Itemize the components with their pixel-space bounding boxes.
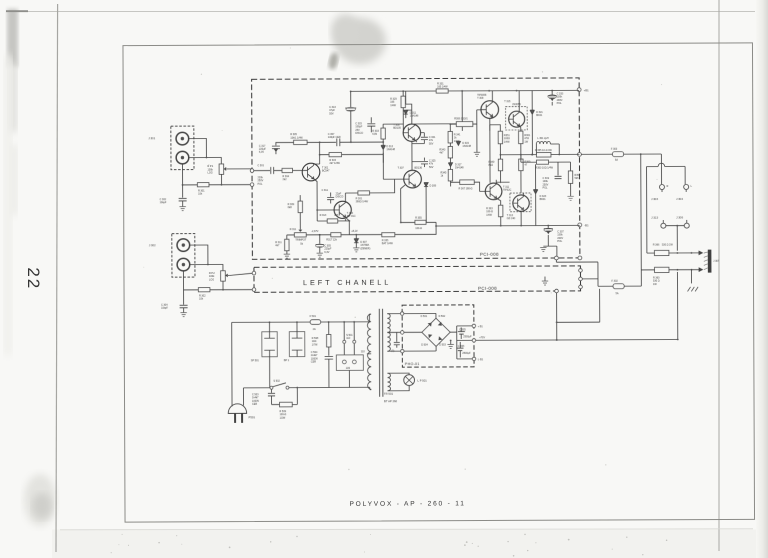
svg-text:530 Ω 1W: 530 Ω 1W (662, 244, 674, 247)
resistor R363 (486, 205, 503, 217)
transistor T313 output bottom (507, 193, 532, 220)
inductor L301 (532, 137, 559, 155)
resistor R349 (488, 159, 502, 171)
svg-text:F 303: F 303 (611, 148, 618, 151)
output terminal node (578, 152, 582, 156)
input terminal node (250, 169, 254, 173)
resistor R343 (439, 146, 452, 158)
transformer TR501 primary (361, 314, 372, 389)
wire 0V rail long (474, 272, 678, 340)
svg-text:TR 501: TR 501 (384, 392, 394, 396)
input jack J301 (148, 126, 194, 170)
svg-text:10k/1 1/4W: 10k/1 1/4W (290, 136, 303, 139)
svg-text:POL: POL (557, 102, 563, 105)
resistor R360 (653, 267, 669, 286)
svg-text:LOG: LOG (209, 278, 214, 281)
resistor R361 (519, 131, 531, 144)
svg-text:TIP3055: TIP3055 (477, 94, 487, 97)
rectifier output terminals (472, 324, 475, 327)
ground input1 (179, 207, 185, 211)
svg-text:6k8: 6k8 (288, 206, 293, 209)
svg-text:6,3V: 6,3V (259, 151, 264, 154)
rectifier input terminals (400, 312, 403, 315)
wire R309 (299, 195, 301, 228)
svg-text:5A: 5A (616, 292, 619, 295)
capacitor C315 (355, 117, 375, 135)
resistor R509 (279, 388, 297, 420)
rectifier PHO-01 dashed box (402, 305, 474, 367)
svg-text:1N4148: 1N4148 (386, 148, 395, 151)
wire R360 row (641, 268, 702, 272)
svg-text:390Ω 1/4W: 390Ω 1/4W (356, 201, 369, 204)
switch S502 (243, 379, 371, 390)
svg-text:R317 12k: R317 12k (326, 238, 337, 241)
wire jack1 to pot (189, 138, 222, 164)
capacitor C307 (307, 133, 351, 146)
left paper fold line (56, 4, 58, 552)
resistor R305 (290, 133, 307, 144)
svg-text:2N3055: 2N3055 (512, 103, 521, 106)
fuse F302 (582, 279, 641, 296)
potentiometer P301 (207, 164, 228, 175)
capacitor C504 (311, 322, 333, 388)
wire bridge connections (404, 313, 472, 359)
svg-text:165 1/4W: 165 1/4W (437, 86, 448, 89)
svg-text:10kpF: 10kpF (160, 201, 167, 204)
svg-text:DISCO: DISCO (355, 132, 363, 135)
transistor T311 (485, 182, 511, 200)
trimpot TP (290, 228, 307, 246)
svg-text:1N4148: 1N4148 (462, 145, 471, 148)
wire T315 emitter to resistors (500, 122, 532, 155)
svg-text:F 501: F 501 (310, 315, 317, 318)
wire x463 vertical (461, 91, 463, 131)
svg-text:D 504: D 504 (421, 344, 428, 347)
svg-text:1k5: 1k5 (334, 214, 339, 217)
transformer TR501 secondary (387, 314, 402, 352)
return terminal node (250, 183, 254, 187)
svg-text:2500μF: 2500μF (462, 352, 471, 355)
svg-text:1N4148: 1N4148 (410, 115, 419, 118)
svg-text:S 502: S 502 (273, 380, 280, 383)
svg-text:R 365 10-Ω 1W: R 365 10-Ω 1W (535, 149, 553, 152)
wire C313 junction to R303 (351, 141, 383, 143)
svg-text:-2,67V: -2,67V (311, 230, 319, 233)
resistor R301 input (197, 183, 209, 196)
svg-text:R 367 180-Ω: R 367 180-Ω (459, 187, 473, 190)
resistor R331 (436, 82, 448, 93)
svg-text:PHO-01: PHO-01 (405, 362, 420, 366)
resistor R311 (275, 239, 289, 251)
svg-text:POL: POL (258, 183, 264, 186)
wire R355 to mid column (401, 190, 436, 234)
svg-text:(- B1: (- B1 (478, 358, 484, 361)
svg-text:110: 110 (361, 350, 366, 353)
svg-text:LEFT CHANELL: LEFT CHANELL (303, 278, 391, 287)
capacitor C301 input coupling (254, 164, 282, 186)
wire T301 collector / R315 feedback row (320, 142, 384, 164)
svg-text:T 309: T 309 (477, 97, 484, 100)
diode D309 (424, 183, 437, 191)
svg-text:BT AP 260: BT AP 260 (384, 399, 398, 403)
bridge rectifier diamond (421, 315, 451, 347)
svg-text:BK01: BK01 (536, 114, 543, 117)
diode D307 zener (354, 235, 370, 251)
capacitor C337 (543, 225, 564, 256)
ground left board (544, 277, 546, 281)
svg-text:CER: CER (311, 361, 316, 364)
svg-text:2k2: 2k2 (283, 178, 288, 181)
resistor R366 (653, 244, 674, 256)
wire pot2 wiper to left-chanell board (223, 273, 254, 290)
svg-text:SP 501: SP 501 (251, 359, 260, 362)
wire T307 emitter to R355 row (383, 153, 405, 223)
plug P501 (228, 388, 255, 423)
capacitor C313 (329, 91, 356, 142)
LEFT CHANELL dashed box (254, 266, 581, 292)
diode D321 (530, 91, 543, 122)
wire bottom row (287, 234, 405, 239)
resistor R508 (312, 334, 331, 347)
resistor R353 (535, 160, 553, 170)
diode D323 (533, 164, 547, 201)
wire feedback row (521, 154, 571, 171)
svg-text:R 311: R 311 (290, 228, 297, 231)
wire jack2 to pot (190, 245, 223, 271)
wire F303 to jack tree (624, 153, 662, 155)
svg-text:+B1: +B1 (584, 88, 589, 92)
svg-text:+ B1: + B1 (478, 325, 484, 328)
ground input2 (180, 313, 186, 317)
svg-text:(ZENER): (ZENER) (360, 247, 370, 250)
wire T301 emitter down (314, 179, 334, 221)
resistor R329 (390, 96, 405, 108)
resistor R365 (535, 149, 553, 157)
scanner strip at bottom (52, 530, 768, 558)
svg-text:1/7W: 1/7W (312, 343, 318, 346)
svg-text:R353 10Ω 1/4W: R353 10Ω 1/4W (535, 167, 553, 170)
wire R306 to T309 base (473, 110, 482, 124)
resistor R367 (459, 180, 475, 191)
svg-text:T 315: T 315 (504, 100, 511, 103)
svg-text:BD136: BD136 (414, 167, 422, 170)
resistor R341 (448, 131, 461, 143)
svg-text:10kpF: 10kpF (161, 307, 168, 310)
svg-text:1/2W: 1/2W (280, 417, 286, 420)
svg-text:+8,2V: +8,2V (351, 230, 358, 233)
wire T305 collector to rail row (406, 91, 457, 124)
+B terminal node (577, 88, 581, 92)
svg-text:220: 220 (346, 367, 351, 370)
wire emitter row (317, 218, 349, 235)
svg-text:J 302: J 302 (149, 243, 156, 247)
resistor R315 (329, 153, 342, 165)
resistor R303 (372, 128, 385, 139)
resistor R351 (498, 131, 510, 144)
svg-text:BD135: BD135 (393, 127, 401, 130)
svg-text:-B1: -B1 (584, 223, 589, 227)
svg-text:BAT 1/4W: BAT 1/4W (382, 242, 394, 245)
capacitor C321 (421, 133, 436, 146)
svg-text:1/4W: 1/4W (504, 141, 510, 144)
capacitor C503 (252, 389, 280, 406)
resistor R304 (282, 168, 293, 181)
wire jack tree (646, 154, 685, 253)
transistor T301 (302, 163, 330, 181)
svg-text:GD 240: GD 240 (507, 217, 516, 220)
svg-text:TRIMPOT: TRIMPOT (295, 239, 306, 242)
svg-text:D 501: D 501 (421, 315, 428, 318)
lamp LP501 (387, 373, 427, 391)
wire mid column top (450, 124, 456, 146)
wire + diode D317 (448, 158, 452, 170)
capacitor C505 (458, 327, 472, 339)
diode D311 (404, 110, 419, 118)
svg-text:TIP 31C: TIP 31C (347, 215, 356, 218)
svg-text:5k6: 5k6 (575, 177, 580, 180)
wire mains top rail (232, 314, 371, 322)
left board input terminals (252, 271, 256, 275)
svg-text:T 307: T 307 (397, 167, 404, 170)
svg-text:1/4W: 1/4W (486, 214, 492, 217)
fuse F303 (581, 148, 623, 162)
wire input return row (182, 164, 252, 185)
svg-text:BP 1: BP 1 (284, 359, 290, 362)
wire J313-J306 link (666, 226, 685, 251)
svg-text:CER: CER (252, 403, 257, 406)
right inner fold line (718, 0, 720, 551)
wire R366 row (647, 251, 703, 255)
svg-text:D 309: D 309 (430, 185, 437, 188)
svg-text:+70V: +70V (479, 336, 485, 339)
svg-text:50V: 50V (429, 166, 434, 169)
diode D313 (381, 142, 396, 153)
wire lower resistors (500, 155, 521, 193)
jack J313 (651, 216, 666, 229)
svg-text:R 313: R 313 (320, 214, 327, 217)
svg-text:POL: POL (543, 187, 549, 190)
wire +B top rail (351, 89, 579, 92)
wire output bus vertical (640, 154, 643, 286)
wire T315 collector (517, 91, 520, 107)
diode D315 (456, 141, 471, 148)
svg-text:50V: 50V (429, 142, 434, 145)
svg-text:2A: 2A (313, 328, 316, 331)
transistor T315 output top (504, 100, 527, 130)
wire input2 return row (183, 271, 254, 305)
drawing frame border (123, 43, 755, 522)
-B terminal node (578, 223, 582, 227)
svg-text:50V: 50V (329, 112, 334, 115)
transformer core (379, 309, 383, 397)
svg-text:4k7: 4k7 (439, 152, 444, 155)
capacitor C305 (315, 235, 331, 254)
svg-text:F 302: F 302 (611, 280, 618, 283)
svg-text:1N4148: 1N4148 (455, 167, 464, 170)
speaker J307 (704, 250, 720, 273)
voltage selector S501 (336, 322, 363, 388)
svg-text:POL: POL (557, 240, 563, 243)
svg-text:L P 501: L P 501 (417, 379, 427, 383)
svg-text:J 303: J 303 (651, 197, 658, 201)
svg-text:2500μF: 2500μF (463, 335, 472, 338)
jack J303 (651, 185, 669, 202)
svg-text:140pF CER: 140pF CER (328, 136, 341, 139)
gnd node on left board bottom (555, 289, 559, 293)
capacitor C311 (322, 189, 344, 204)
ground bias network (476, 124, 478, 152)
resistor R345 (441, 169, 453, 181)
resistor R301b (356, 191, 370, 204)
wire T311 (490, 125, 510, 206)
top-center stain (334, 18, 386, 64)
capacitor C302 input1 (160, 185, 187, 207)
svg-text:C 311: C 311 (322, 189, 329, 192)
wire mid column bottom (451, 181, 486, 192)
svg-text:81Ω: 81Ω (488, 164, 493, 167)
svg-text:100-Ω: 100-Ω (415, 227, 422, 230)
gnd node on box bottom (554, 256, 558, 260)
resistor R313 (320, 214, 339, 223)
wire R357 bottom (570, 183, 572, 196)
resistor R359 (519, 159, 531, 171)
left edge streaks (7, 9, 18, 67)
svg-text:J 301: J 301 (148, 136, 155, 140)
svg-text:4k7: 4k7 (275, 244, 280, 247)
resistor R355 (415, 216, 426, 230)
left board right terminals (579, 269, 583, 273)
svg-text:2k7 1/4W: 2k7 1/4W (329, 162, 340, 165)
svg-text:DISCO: DISCO (336, 196, 344, 199)
svg-text:R: R (667, 185, 669, 188)
svg-text:R 355: R 355 (415, 216, 422, 219)
svg-text:110: 110 (346, 337, 351, 340)
jack J306 (676, 215, 689, 228)
svg-text:(?): (?) (391, 350, 394, 353)
svg-text:J 304: J 304 (676, 197, 683, 201)
bottom page edge (60, 529, 753, 530)
top paper fold line (6, 11, 755, 13)
transistor T307 (397, 167, 422, 188)
capacitor BP1 (284, 322, 305, 362)
transistor T303 (334, 201, 356, 219)
svg-text:J 306: J 306 (676, 215, 683, 219)
ground rectifier (450, 340, 452, 344)
svg-text:C 301: C 301 (257, 164, 264, 167)
potentiometer P302 (209, 271, 230, 282)
wire pcb gnd plumbing (556, 260, 599, 340)
resistor R309 (288, 201, 303, 213)
svg-text:PCI-008: PCI-008 (480, 252, 499, 257)
svg-text:22: 22 (24, 267, 43, 290)
svg-text:POLYVOX - AP - 260 - 11: POLYVOX - AP - 260 - 11 (349, 500, 464, 508)
transistor T309 (477, 94, 498, 119)
resistor R302 (198, 288, 210, 301)
wire to T301 base (293, 169, 304, 171)
svg-text:L 301 2μH: L 301 2μH (537, 137, 548, 140)
transistor T305 (393, 124, 420, 142)
wire R329 to T305 base (402, 91, 404, 133)
wire output row (551, 153, 579, 155)
svg-text:J 307: J 307 (713, 260, 720, 263)
svg-text:R 366: R 366 (653, 244, 660, 247)
svg-text:PCI-008: PCI-008 (478, 286, 497, 291)
input jack J302 (149, 234, 195, 278)
svg-text:6,3V: 6,3V (324, 251, 329, 254)
wire T303 collector to R301b row (345, 179, 394, 221)
capacitor C325 (421, 158, 436, 169)
wire R303 (383, 124, 403, 142)
jack J304 (676, 184, 693, 201)
svg-text:C 505: C 505 (459, 328, 466, 331)
svg-text:1/4W: 1/4W (390, 104, 396, 107)
capacitor C319 (542, 162, 561, 190)
svg-text:TIP32C: TIP32C (503, 189, 512, 192)
resistor R306 (454, 118, 473, 127)
capacitor C317 (259, 142, 294, 154)
svg-text:D 503: D 503 (439, 343, 446, 346)
wire mains left drop (231, 322, 233, 404)
fuse F501 (310, 315, 321, 331)
svg-text:6,8k: 6,8k (372, 133, 377, 136)
resistor R357 (568, 171, 581, 184)
wire bottom -B row (436, 198, 580, 226)
svg-text:C 506: C 506 (458, 345, 465, 348)
resistor R335 (382, 233, 395, 246)
svg-text:BC547: BC547 (322, 170, 330, 173)
bottom-left smudge (24, 474, 56, 526)
svg-text:P501: P501 (249, 415, 256, 419)
svg-text:D 502: D 502 (439, 315, 446, 318)
right page edge band (756, 0, 768, 558)
capacitor C333 (548, 90, 564, 105)
capacitor C506 (456, 342, 471, 358)
svg-text:J 313: J 313 (651, 216, 658, 220)
wire R311 + ground (286, 251, 288, 254)
PCI-008 main amp dashed box (252, 78, 580, 259)
wire pot1 wiper to board (221, 169, 252, 185)
ground speaker return (691, 270, 693, 284)
resistor R317 (326, 233, 341, 242)
capacitor C304 input2 (161, 304, 188, 313)
ground C337 (540, 248, 546, 252)
capacitor center tap (391, 332, 400, 352)
wire T309 (490, 91, 501, 132)
svg-text:BK01: BK01 (540, 198, 547, 201)
svg-text:R306 1ΩΩ/1: R306 1ΩΩ/1 (454, 118, 468, 121)
svg-text:LOG: LOG (208, 172, 213, 175)
wire T305 emitter chain (412, 140, 425, 171)
surge arrester SP501 (251, 322, 278, 388)
transformer lamp winding (387, 373, 390, 391)
svg-text:5A: 5A (615, 159, 618, 162)
